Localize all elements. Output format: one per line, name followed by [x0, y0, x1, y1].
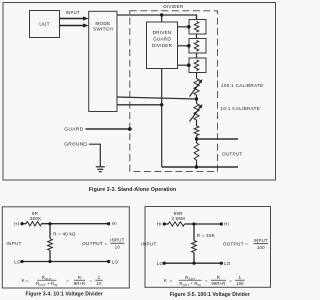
- svg-text:10: 10: [97, 281, 102, 286]
- svg-text:INPUT: INPUT: [110, 237, 124, 242]
- svg-text:OUTPUT =: OUTPUT =: [82, 241, 107, 247]
- svg-text:3.96M: 3.96M: [171, 216, 185, 221]
- svg-text:R = 40K: R = 40K: [197, 233, 216, 238]
- svg-text:10:1 CALIBRATE: 10:1 CALIBRATE: [221, 106, 261, 111]
- svg-text:100: 100: [257, 245, 265, 250]
- svg-text:99R+R: 99R+R: [211, 281, 225, 286]
- svg-text:K: K: [22, 278, 25, 283]
- svg-text:R: R: [78, 275, 81, 280]
- svg-text:HI: HI: [224, 221, 229, 226]
- svg-text:GROUND: GROUND: [64, 142, 87, 148]
- svg-text:ROUT + RIN: ROUT + RIN: [179, 281, 200, 287]
- svg-text:GUARD: GUARD: [64, 127, 83, 133]
- svg-text:9R+R: 9R+R: [74, 281, 86, 286]
- svg-text:HI: HI: [14, 221, 19, 226]
- svg-text:=: =: [26, 278, 29, 283]
- svg-text:R: R: [217, 275, 220, 280]
- svg-text:LO: LO: [14, 259, 21, 264]
- svg-text:LO: LO: [112, 259, 119, 264]
- svg-text:=: =: [205, 278, 208, 283]
- svg-text:100: 100: [236, 281, 244, 286]
- svg-text:INPUT: INPUT: [141, 242, 156, 247]
- svg-text:=: =: [66, 278, 69, 283]
- svg-text:K: K: [164, 278, 167, 283]
- svg-text:HI: HI: [112, 221, 117, 226]
- svg-text:INPUT: INPUT: [254, 238, 268, 243]
- svg-text:ROUT + RIN: ROUT + RIN: [36, 281, 57, 287]
- svg-text:360K: 360K: [30, 216, 42, 221]
- svg-text:MODE: MODE: [95, 21, 110, 26]
- svg-text:GUARD: GUARD: [153, 37, 171, 42]
- svg-text:INPUT: INPUT: [66, 10, 80, 15]
- svg-text:LO: LO: [224, 261, 231, 266]
- svg-text:=: =: [90, 278, 93, 283]
- svg-text:DRIVEN: DRIVEN: [153, 30, 172, 35]
- svg-text:R = 40 kΩ: R = 40 kΩ: [53, 231, 76, 236]
- svg-text:UUT: UUT: [39, 21, 50, 27]
- svg-text:10: 10: [115, 245, 121, 250]
- svg-text:Figure 3-3. Stand-Alone Operat: Figure 3-3. Stand-Alone Operation: [89, 187, 176, 193]
- svg-text:DIVIDER: DIVIDER: [152, 43, 173, 48]
- svg-text:INPUT: INPUT: [7, 241, 22, 246]
- svg-text:HI: HI: [157, 222, 162, 227]
- svg-text:LO: LO: [157, 261, 164, 266]
- svg-text:DIVIDER: DIVIDER: [163, 4, 184, 9]
- svg-text:100:1 CALIBRATE: 100:1 CALIBRATE: [221, 83, 263, 88]
- svg-text:OUTPUT: OUTPUT: [222, 151, 242, 156]
- svg-text:Figure 3-4. 10:1 Voltage Divid: Figure 3-4. 10:1 Voltage Divider: [26, 291, 103, 297]
- svg-text:=: =: [229, 278, 232, 283]
- svg-text:SWITCH: SWITCH: [93, 27, 113, 32]
- svg-text:Figure 3-5. 100:1 Voltage Divi: Figure 3-5. 100:1 Voltage Divider: [170, 292, 250, 298]
- svg-text:=: =: [170, 278, 173, 283]
- svg-text:OUTPUT =: OUTPUT =: [223, 242, 248, 248]
